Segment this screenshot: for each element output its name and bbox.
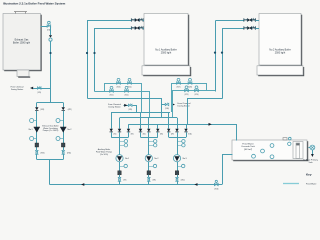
svg-text:(V1): (V1): [113, 133, 116, 135]
pipe: bottom suction manifold: [50, 184, 223, 186]
valve V31 circ pump 1 inlet: [35, 107, 38, 110]
valve V26 on H2b: [195, 89, 199, 92]
drain arrow down: [311, 154, 314, 157]
pipe: circ pump 2 column: [63, 111, 65, 151]
svg-text:Boiler 1500 kg/h: Boiler 1500 kg/h: [13, 41, 31, 44]
expansion piece circ pump 1: [35, 143, 39, 147]
exhaust gas boiler tank: [4, 15, 42, 71]
pipe: pump No.2 drop from M1: [140, 112, 142, 129]
pipe: pump No.2 collect header: [141, 137, 158, 139]
pipe: header H1a y83: [105, 83, 142, 85]
valve cluster boiler 2 lower inlet: [244, 27, 248, 30]
tank gauge small: [288, 142, 291, 145]
no.2 auxiliary boiler box: [260, 15, 302, 66]
svg-text:Illustration 2.3.1a Boiler Fee: Illustration 2.3.1a Boiler Feed Water Sy…: [3, 2, 66, 6]
tank gauge: [252, 154, 256, 158]
pipe: chem dosing left: [124, 105, 129, 107]
pipe: circ pump 2 lower: [63, 154, 65, 159]
svg-text:Cascade Tank: Cascade Tank: [241, 146, 256, 148]
junction dot riser 4: [221, 52, 223, 54]
svg-text:(V8): (V8): [153, 179, 156, 181]
pipe: pump No.2 suction lower: [148, 181, 150, 184]
pipe: header H3b y98.5 and drop to M3: [188, 99, 223, 125]
svg-text:(V12): (V12): [181, 179, 185, 181]
svg-text:(V26): (V26): [195, 94, 199, 96]
pipe: manifold M2: [120, 117, 177, 119]
svg-text:(V24): (V24): [128, 87, 132, 89]
pipe: pump No.1 drop from M2: [119, 118, 121, 129]
pipe: pump No.2 branch a lower: [140, 132, 142, 137]
pipe: pump No.3 drop from M2: [177, 118, 179, 129]
svg-text:(V9): (V9): [171, 133, 174, 135]
gauge circles pump No.2 discharge: [149, 141, 154, 143]
pipe: pump No.2 branch c lower: [157, 132, 159, 137]
svg-text:Dosing Station: Dosing Station: [11, 88, 23, 91]
suction manifold valve V13: [214, 183, 218, 186]
pipe: pump No.3 branch b lower: [177, 132, 179, 137]
pipe: suction riser from cascade tank: [223, 155, 233, 185]
gauge circle circ pump 2 suction: [60, 120, 63, 122]
svg-text:(V34): (V34): [67, 152, 71, 154]
pipe: circ pump no.1 branch upper: [36, 103, 38, 108]
pipe: chem dosing far left line: [33, 88, 50, 90]
svg-text:No.1: No.1: [29, 129, 33, 131]
pipe: pump No.2 drop from M2: [148, 118, 150, 129]
pipe: pump No.1 branch a lower: [111, 132, 113, 137]
valve (V1) pump No.1 delivery a: [110, 129, 113, 132]
svg-text:(V7): (V7): [123, 179, 126, 181]
pipe: pump No.3 suction lower: [177, 181, 179, 184]
pipe: pump No.1 branch c lower: [128, 132, 130, 137]
drain drop line: [312, 150, 314, 154]
pipe: pump No.2 drop from M3: [157, 124, 159, 129]
pipe: H1b left drop to M1: [171, 83, 173, 112]
svg-text:Tank: Tank: [308, 162, 312, 164]
feed pump No.3: [173, 155, 180, 162]
pipe: H1b right drop: [206, 83, 208, 91]
svg-text:Dosing Station: Dosing Station: [108, 105, 120, 108]
key feed water line sample: [283, 183, 299, 185]
no.1 auxiliary boiler box: [145, 15, 189, 66]
pipe: pump No.2 branch b lower: [148, 132, 150, 137]
junction dot riser 2: [93, 52, 95, 54]
pipe: header H3a y98.5 and drop: [88, 99, 162, 118]
pipe: circ pump 1 lower: [36, 154, 38, 159]
flow arrow on suction manifold left: [81, 183, 84, 186]
valve cluster boiler 2 upper inlet: [244, 19, 248, 22]
chem dosing far left arrow: [30, 87, 33, 90]
pipe: H1a left drop: [104, 83, 106, 91]
pipe: pump No.3 down to pump: [177, 137, 179, 154]
svg-text:(V33): (V33): [41, 152, 45, 154]
svg-text:No.1: No.1: [125, 158, 129, 160]
svg-text:(V3): (V3): [131, 133, 134, 135]
svg-text:(V35): (V35): [128, 109, 132, 111]
pipe: circ pump no.2 branch upper: [63, 103, 65, 108]
valve V24 on H1a: [128, 82, 132, 85]
pipe: pump No.3 collect header: [169, 137, 186, 139]
tank gauge: [270, 155, 274, 159]
pipe: header H1b y83: [172, 83, 207, 85]
pipe: EG downcomer: [50, 41, 52, 102]
pipe: pump No.3 suction upper: [177, 162, 179, 171]
pipe: riser to boiler 2 upper inlet: [215, 21, 217, 92]
pipe: circ pump supply header: [37, 102, 63, 104]
pipe: H1a right drop to M1: [141, 83, 143, 112]
gauge circle circ pump 2 discharge: [60, 138, 63, 140]
tank top hatch: [14, 11, 27, 13]
svg-text:2500 kg/h: 2500 kg/h: [161, 51, 172, 54]
svg-text:Pumps (2 x 100%): Pumps (2 x 100%): [43, 130, 59, 132]
expansion piece pump No.1: [118, 171, 122, 175]
svg-text:Feed Water: Feed Water: [306, 183, 317, 186]
valve (V2) pump No.1 delivery b: [118, 129, 121, 132]
svg-text:2500 kg/h: 2500 kg/h: [275, 51, 286, 54]
expansion piece pump No.2: [147, 171, 151, 175]
gauge circle circ pump 1 suction: [34, 120, 37, 122]
junction dot riser 3: [214, 52, 216, 54]
valve V34 circ pump 2 discharge: [62, 150, 65, 154]
circ pump no.1 (filled triangle): [34, 126, 40, 128]
valve V25 on H2b: [185, 89, 189, 92]
svg-text:(V13): (V13): [214, 188, 218, 190]
pipe: EG boiler outlet: [41, 26, 48, 28]
pipe: pump No.3 drop from M1: [168, 112, 170, 129]
valve V33 circ pump 1 discharge: [36, 150, 39, 154]
pipe: pump No.1 drop from M3: [128, 124, 130, 129]
svg-text:(V22): (V22): [125, 95, 129, 97]
flow arrow on suction manifold right: [194, 183, 197, 186]
junction dot riser 1: [86, 52, 88, 54]
gauge circle circ pump 1 discharge: [34, 138, 37, 140]
suction valve (V7) pump No.1: [118, 177, 121, 181]
pipe: riser to boiler 1 lower inlet: [95, 29, 132, 92]
tank top gauge circle: [289, 137, 292, 140]
chem dosing left arrow: [124, 104, 127, 107]
pipe: header H2b y90.5: [172, 90, 215, 92]
svg-text:(V15): (V15): [37, 92, 41, 94]
pipe: pump No.3 branch a lower: [168, 132, 170, 137]
svg-text:(V11): (V11): [188, 133, 192, 135]
svg-text:(V28): (V28): [188, 87, 192, 89]
chem dosing right arrow: [172, 103, 175, 106]
feed pump No.2: [145, 155, 152, 162]
gauge circles pump No.1 discharge: [120, 141, 125, 143]
svg-text:(V25): (V25): [185, 94, 189, 96]
junction dot on EG downcomer: [49, 52, 51, 54]
svg-text:(V23): (V23): [117, 87, 121, 89]
valve V22 on H2a: [125, 90, 129, 93]
svg-text:Key: Key: [306, 173, 312, 177]
gauge circles pump No.3 discharge: [177, 141, 182, 143]
pipe: down from outlet valve: [50, 26, 52, 35]
suction valve (V12) pump No.3: [176, 177, 179, 181]
pipe: header H2a y91: [95, 91, 150, 93]
valve chem dosing left: [128, 104, 132, 106]
gauge circle pump No.1 suction: [120, 166, 125, 168]
no.1 boiler base: [143, 67, 191, 76]
valve V28 on H1b: [188, 82, 192, 85]
pipe: pump No.1 down to pump: [119, 137, 121, 154]
pipe: pump No.2 suction mid: [148, 175, 150, 178]
svg-text:(V27): (V27): [177, 87, 181, 89]
svg-text:(V4): (V4): [143, 133, 146, 135]
pipe: H2b left drop to M2: [172, 91, 174, 118]
svg-text:Feed Water: Feed Water: [242, 142, 254, 145]
pipe: pump No.1 suction upper: [119, 162, 121, 171]
valve (V4) pump No.2 delivery a: [139, 129, 142, 132]
valve V32 circ pump 2 inlet: [62, 107, 65, 110]
pipe: pump No.3 suction mid: [177, 175, 179, 178]
svg-text:No.3: No.3: [183, 158, 187, 160]
pipe: pump No.1 drop from M1: [111, 112, 113, 129]
tank internal weir compartment: [293, 142, 303, 159]
svg-text:(V21): (V21): [110, 95, 114, 97]
pipe: pump No.1 collect header: [111, 137, 128, 139]
valve (V9) pump No.3 delivery a: [167, 129, 170, 132]
valve (V5) pump No.2 delivery b: [147, 129, 150, 132]
valve V27 on H1b: [177, 82, 181, 85]
pipe: pump No.1 suction mid: [119, 175, 121, 178]
pipe: pump No.2 down to pump: [148, 137, 150, 154]
svg-text:No.2: No.2: [67, 129, 71, 131]
pipe: pump No.1 branch b lower: [119, 132, 121, 137]
tank bottom neck: [17, 70, 29, 77]
pipe: manifold M1: [112, 112, 171, 114]
circ pump no.2 (filled triangle): [60, 126, 66, 128]
drain pump: [310, 145, 315, 150]
svg-text:No.2: No.2: [154, 158, 158, 160]
feed water cascade tank: [233, 141, 308, 161]
pipe: circ pump 1 column: [36, 111, 38, 151]
pipe: pump No.1 suction lower: [119, 181, 121, 184]
tank gauge: [261, 149, 265, 153]
valve (V6) pump No.2 delivery c: [156, 129, 159, 132]
expansion piece circ pump 2: [61, 143, 65, 147]
pipe: riser to boiler 2 lower inlet: [223, 29, 244, 99]
suction valve (V8) pump No.2: [148, 177, 151, 181]
check valve (filled) on EG downcomer: [49, 35, 52, 37]
pipe: pump No.3 branch c lower: [186, 132, 188, 137]
gauge circle pump No.3 suction: [177, 166, 182, 168]
valve cluster boiler 1 lower inlet: [131, 27, 135, 30]
expansion piece pump No.3: [175, 171, 179, 175]
no.2 boiler base: [258, 67, 304, 76]
pipe: pump No.3 drop from M3: [186, 124, 188, 129]
pipe: pump No.2 suction upper: [148, 162, 150, 171]
svg-text:(3 x 50%): (3 x 50%): [100, 154, 108, 156]
pipe: circ return drop: [49, 160, 51, 185]
drain line to bilge: [309, 147, 311, 149]
pipe: boiler 2 upper inlet line: [216, 20, 244, 22]
svg-text:(V36): (V36): [165, 108, 169, 110]
valve cluster boiler 1 upper inlet: [131, 19, 135, 22]
pipe: circ pump return header: [37, 159, 63, 161]
pipe: chem dosing right stub: [161, 104, 165, 106]
valve V23 on H1a: [117, 82, 121, 85]
svg-text:(V32): (V32): [68, 109, 72, 111]
tank top fitting: [283, 138, 287, 140]
flow arrow on M3: [209, 123, 212, 126]
valve V30 at EG boiler outlet: [47, 25, 51, 27]
valve V15 chem dosing far left: [37, 87, 41, 89]
svg-text:(V6): (V6): [160, 133, 163, 135]
pipe: riser to boiler 1 upper inlet: [88, 21, 132, 99]
gauge circle pump No.2 suction: [149, 166, 154, 168]
valve V21 on H2a: [110, 90, 114, 93]
pipe: chem dosing left into manifold: [133, 106, 137, 113]
valve (V3) pump No.1 delivery c: [127, 129, 130, 132]
pipe: H2a right drop to M2: [149, 91, 151, 118]
feed pump No.1: [116, 155, 123, 162]
gauge circle on EG downcomer: [49, 38, 52, 41]
pipe: manifold M3 to cascade tank: [129, 125, 237, 141]
tank gauge LI: [270, 144, 274, 148]
svg-text:(V31): (V31): [40, 109, 44, 111]
valve chem dosing right: [165, 103, 169, 105]
valve (V11) pump No.3 delivery c: [184, 129, 187, 132]
valve (V10) pump No.3 delivery b: [175, 129, 178, 132]
svg-text:(30.5m³): (30.5m³): [244, 148, 253, 151]
